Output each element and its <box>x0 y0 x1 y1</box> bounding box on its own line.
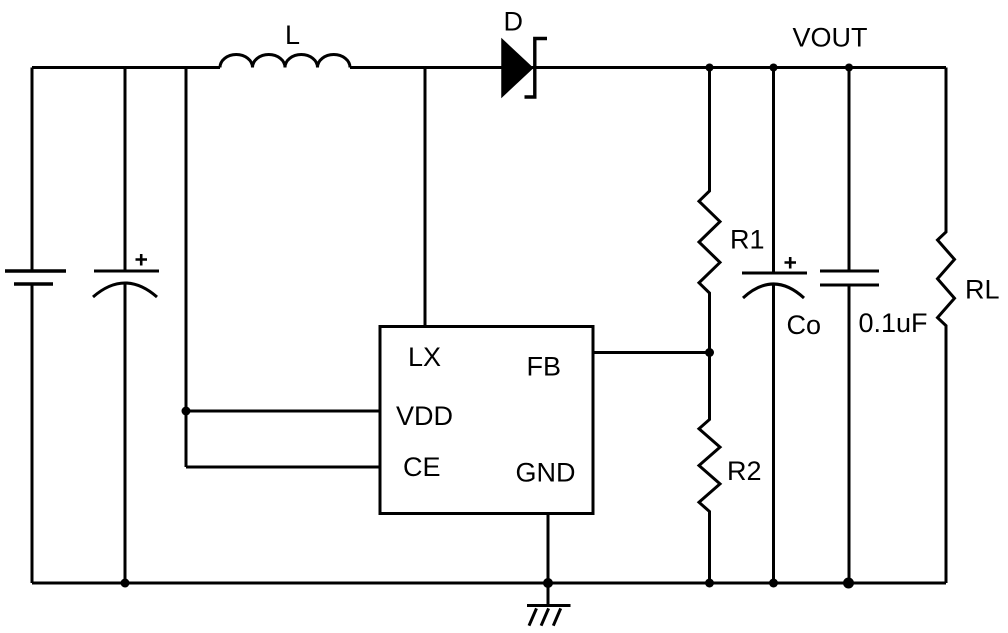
diode D (schottky) <box>502 39 547 98</box>
svg-text:CE: CE <box>403 452 441 482</box>
capacitor C1 (input electrolytic) <box>93 271 159 297</box>
wire FB <box>593 351 710 354</box>
node junction dot bottom R2 <box>705 579 714 588</box>
resistor R2 <box>699 353 720 584</box>
plus sign of Co <box>785 257 797 269</box>
node junction dot bottom 0.1uF <box>843 578 854 589</box>
wire VDD/CE branch vertical <box>185 68 188 468</box>
wire top rail <box>32 66 946 69</box>
node junction dot top R1 <box>706 64 714 72</box>
svg-text:LX: LX <box>408 342 441 372</box>
wire bottom rail <box>32 582 946 585</box>
resistor RL <box>938 68 955 584</box>
svg-text:FB: FB <box>527 352 562 382</box>
svg-text:Co: Co <box>787 310 822 340</box>
node junction dot top Co <box>770 64 778 72</box>
wire battery branch left vertical <box>31 68 34 584</box>
wire Co branch vertical <box>772 68 775 584</box>
battery BT1 <box>5 271 66 284</box>
node junction dot bottom GND <box>543 578 553 588</box>
capacitor 0.1uF <box>820 271 879 285</box>
wire LX vertical <box>424 68 427 327</box>
plus sign of C1 <box>136 254 148 266</box>
node junction dot FB <box>705 348 714 357</box>
svg-text:VDD: VDD <box>396 401 453 431</box>
wire CE <box>186 466 380 469</box>
svg-text:0.1uF: 0.1uF <box>859 308 928 338</box>
op-amp U1 (IC box) <box>380 327 593 514</box>
svg-text:R2: R2 <box>727 456 762 486</box>
wire 0.1uF branch vertical <box>848 68 851 584</box>
capacitor Co (output electrolytic) <box>742 273 807 298</box>
wire GND pin vertical <box>547 514 550 584</box>
svg-text:GND: GND <box>516 458 576 488</box>
node junction dot top 0.1uF <box>845 64 853 72</box>
wire VDD <box>186 410 380 413</box>
svg-text:D: D <box>504 7 524 37</box>
svg-text:L: L <box>285 20 300 50</box>
wire input cap branch vertical <box>124 68 127 584</box>
inductor L <box>220 55 350 68</box>
node junction dot VDD tap <box>182 407 191 416</box>
node junction dot bottom Co <box>769 579 778 588</box>
svg-text:RL: RL <box>965 275 1000 305</box>
resistor R1 <box>699 68 720 353</box>
svg-text:VOUT: VOUT <box>793 23 868 53</box>
ground <box>527 583 571 626</box>
node junction dot bottom C1 <box>121 579 130 588</box>
svg-text:R1: R1 <box>730 225 765 255</box>
